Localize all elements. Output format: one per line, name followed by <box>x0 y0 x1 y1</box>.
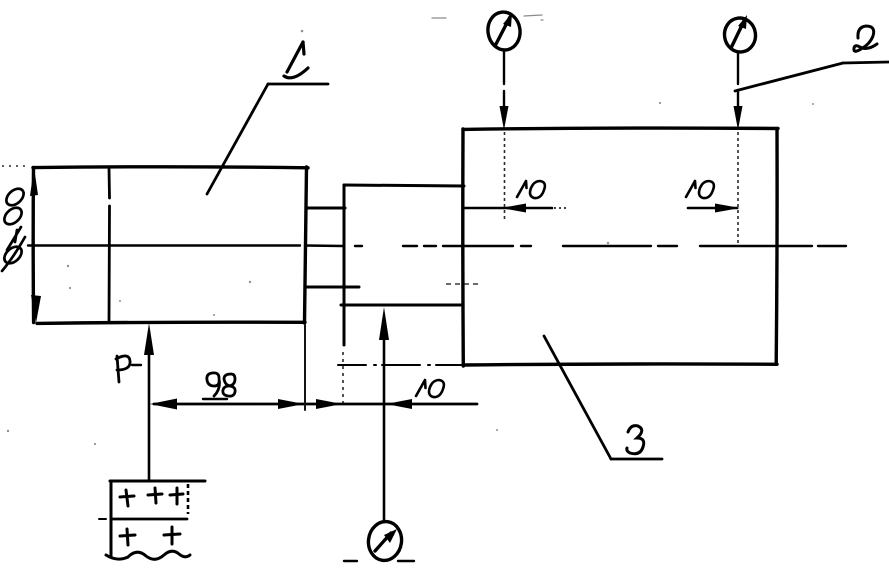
magnet box wavy bottom <box>106 551 190 559</box>
centerline (dash-dot axis) <box>28 244 846 247</box>
phantom dash-dot line under middle block <box>338 364 461 366</box>
leader line for label 1 <box>207 84 328 194</box>
shaft neck bottom line <box>305 286 359 289</box>
magnet box middle line <box>112 518 187 521</box>
dimension 10 (right, inside block 3) line <box>688 207 737 210</box>
gauge indicator circle 2 <box>722 16 757 54</box>
label 10 (bottom) <box>416 380 444 397</box>
middle block (collar) <box>341 185 464 345</box>
block 1 (workpiece in chuck) outline <box>33 167 308 324</box>
bottom gauge indicator circle <box>366 519 404 562</box>
gauge indicator circle 1 <box>486 10 523 52</box>
label 10 (right) <box>686 181 714 198</box>
arrowhead 98 right <box>278 399 304 409</box>
leader line for label 3 <box>544 336 662 459</box>
hidden neck dashes right side <box>446 283 478 285</box>
gauge 2 drop line (dashed with arrow) <box>737 53 739 113</box>
chuck jaw line inside block 1 <box>108 168 111 322</box>
label 10 (left) <box>517 181 545 198</box>
arrowhead 98 left <box>150 399 177 410</box>
underline for 98 <box>203 398 227 400</box>
dimension 10 (right) arrowhead <box>715 204 740 213</box>
middle block left edge extension (dotted) <box>342 352 344 406</box>
dash after P <box>132 364 141 366</box>
block 3 (right housing) outline <box>463 128 778 366</box>
magnet box top edge <box>110 480 205 483</box>
faint scan marks top center <box>432 15 543 20</box>
bottom dimension line (98 and 10) <box>154 403 477 406</box>
label 2 <box>854 26 877 51</box>
label 1 <box>284 42 308 78</box>
gauge 1 drop line (dashed with arrow) <box>503 51 505 112</box>
force P arrow line <box>148 332 151 481</box>
extension line of block1 right edge (dotted) <box>304 325 306 410</box>
arrowhead 10 pointing right at x341 <box>316 399 342 409</box>
gauge 2 extension inside block (dotted) <box>737 132 739 244</box>
magnet box left edge <box>110 482 113 556</box>
bottom gauge arrowhead <box>379 307 389 340</box>
dimension 10 (left, inside block 3) line <box>463 207 552 210</box>
label P <box>116 356 130 382</box>
label 98 <box>207 373 235 396</box>
plus marks row 2 <box>120 527 180 545</box>
leader line for label 2 <box>735 62 889 91</box>
arrowhead 10 pointing left at x387 <box>386 399 412 409</box>
magnet box right edge (dotted) <box>187 484 190 514</box>
label phi100 (rotated) <box>1 185 27 271</box>
dimension phi100 arrows on left edge <box>30 167 41 323</box>
plus marks row 1 <box>120 488 183 506</box>
force P arrowhead <box>144 323 154 355</box>
dotted extension left of block 1 top edge <box>2 165 30 167</box>
tick left of magnet box <box>99 518 106 520</box>
short marks beside bottom gauge <box>344 560 414 562</box>
label 3 <box>627 426 644 454</box>
bottom gauge stem line <box>383 336 386 522</box>
gauge 1 extension inside block (dotted) <box>504 132 506 220</box>
dimension 10 (left) arrowhead <box>501 204 526 213</box>
scan specks <box>7 30 814 445</box>
shaft neck top line <box>306 207 345 210</box>
